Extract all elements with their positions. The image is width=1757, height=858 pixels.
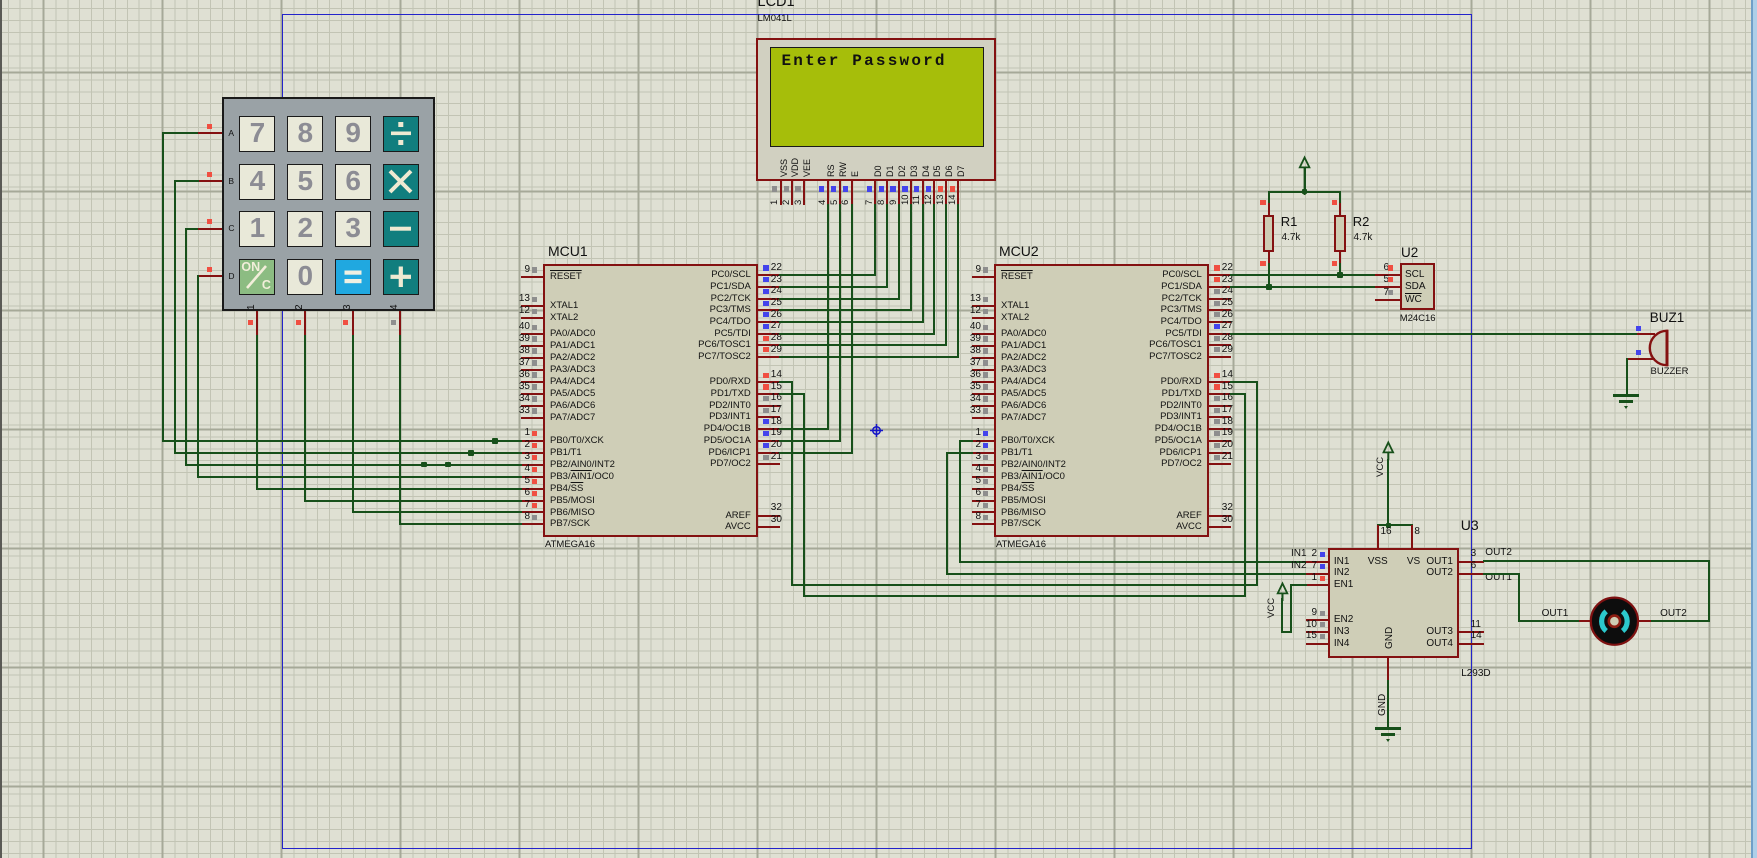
MCU2 pin 33 PA7/ADC7 <box>972 417 994 419</box>
wire U3 OUT1 to motor (net OUT2) <box>1483 560 1710 562</box>
MCU1 pin 2 PB1/T1 <box>521 452 543 454</box>
U2 pin 6 <box>1375 274 1400 276</box>
U3 left pin 10 <box>1306 631 1328 633</box>
keypad button 7 <box>239 116 275 152</box>
LCD pin 8 D1 <box>886 165 896 177</box>
MCU1 pin 3 PB2/AIN0/INT2 <box>521 464 543 466</box>
wire MCU1 to LCD <box>779 309 912 311</box>
net label OUT1 (pin6) <box>1485 572 1525 585</box>
motor symbol <box>1588 595 1641 648</box>
LCD LM041L body <box>756 38 996 181</box>
left screen edge <box>0 0 2 858</box>
keypad button 0 <box>287 259 323 295</box>
keypad button 1 <box>239 211 275 247</box>
wire MCU1 to LCD <box>779 356 959 358</box>
MCU1 pin 26 PC4/TDO <box>758 321 780 323</box>
MCU2 pin 16 PD2/INT0 <box>1209 405 1231 407</box>
LCD pin 5 RW <box>839 162 849 177</box>
wire MCU1 to LCD <box>779 440 841 442</box>
MCU2 pin 3 PB2/AIN0/INT2 <box>972 464 994 466</box>
wire MCU2 PB0 to U3 IN1 <box>959 440 973 442</box>
MCU1 pin 12 XTAL2 <box>521 317 543 319</box>
node junction R2-SCL <box>1337 272 1343 278</box>
wire MCU1 to LCD <box>779 286 888 288</box>
MCU1 pin 30 AVCC <box>758 526 780 528</box>
MCU1 pin 37 PA3/ADC3 <box>521 369 543 371</box>
MCU2 pin 5 PB4/SS <box>972 488 994 490</box>
keypad column pin 2 <box>304 311 306 336</box>
net label OUT2 (pin3) <box>1485 547 1525 560</box>
MCU2 pin 9 RESET <box>972 276 994 278</box>
wire keypad column 1 to MCU1 PB4 <box>256 335 258 490</box>
MCU1 pin 8 PB7/SCK <box>521 523 543 525</box>
MCU1 pin 24 PC2/TCK <box>758 298 780 300</box>
wire keypad row A to MCU1 PB0 <box>162 132 199 134</box>
wire MCU1 to LCD <box>779 321 924 323</box>
U3 left pin 7 <box>1306 573 1328 575</box>
U3 left pin 9 <box>1306 619 1328 621</box>
keypad button − <box>383 211 419 247</box>
keypad button 8 <box>287 116 323 152</box>
GND net label <box>1377 694 1388 716</box>
MCU2 pin 30 AVCC <box>1209 526 1231 528</box>
origin marker <box>870 424 884 438</box>
buzzer BUZ1 symbol <box>1648 329 1670 367</box>
ground (buzzer) <box>1611 393 1643 411</box>
wire keypad row C to MCU1 PB2 <box>185 228 198 230</box>
MCU2 pin 23 PC1/SDA <box>1209 286 1231 288</box>
LCD pin 10 D3 <box>910 165 920 177</box>
keypad button = <box>335 259 371 295</box>
net label OUT1 (motor) <box>1542 608 1582 621</box>
U3 right pin 6 <box>1459 573 1483 575</box>
LCD pin 2 VDD <box>791 158 801 177</box>
keypad button ON/C <box>239 259 275 295</box>
MCU2 pin 32 AREF <box>1209 515 1231 517</box>
MCU1 pin 14 PD0/RXD <box>758 381 780 383</box>
wire junction dots <box>492 438 498 444</box>
MCU2 pin 35 PA5/ADC5 <box>972 393 994 395</box>
MCU1 pin 39 PA1/ADC1 <box>521 345 543 347</box>
MCU2 pin 22 PC0/SCL <box>1209 274 1231 276</box>
MCU1 pin 32 AREF <box>758 515 780 517</box>
MCU1 pin 38 PA2/ADC2 <box>521 357 543 359</box>
MCU1 pin 17 PD3/INT1 <box>758 416 780 418</box>
MCU1 pin 29 PC7/TOSC2 <box>758 356 780 358</box>
driver U3 label <box>1461 517 1501 535</box>
U3 left pin 15 <box>1306 643 1328 645</box>
keypad button 4 <box>239 164 275 200</box>
LCD pin 9 D2 <box>898 165 908 177</box>
MCU1 pin 9 RESET <box>521 276 543 278</box>
keypad row pin A <box>198 132 223 134</box>
EEPROM U2 body <box>1400 263 1436 310</box>
ground (U3) <box>1372 726 1405 744</box>
wire U3 OUT2 to motor (net OUT1) <box>1483 573 1520 575</box>
MCU1 pin 23 PC1/SDA <box>758 286 780 288</box>
LCD pin 13 D6 <box>945 165 955 177</box>
keypad button 2 <box>287 211 323 247</box>
wire keypad row B to MCU1 PB1 <box>174 180 199 182</box>
MCU2 pin 39 PA1/ADC1 <box>972 345 994 347</box>
wire MCU2 PC0 SCL to U2 <box>1230 274 1376 276</box>
keypad button 3 <box>335 211 371 247</box>
MCU1 pin 6 PB5/MOSI <box>521 500 543 502</box>
buzzer pin 2 <box>1627 358 1655 360</box>
LCD pin 12 D5 <box>933 165 943 177</box>
MCU1 pin 13 XTAL1 <box>521 305 543 307</box>
LCD pin 14 D7 <box>957 165 967 177</box>
MCU1 pin 28 PC6/TOSC1 <box>758 344 780 346</box>
MCU2 pin 40 PA0/ADC0 <box>972 333 994 335</box>
MCU2 pin 13 XTAL1 <box>972 305 994 307</box>
wire buzzer to ground <box>1626 358 1628 396</box>
MCU2 pin 34 PA6/ADC6 <box>972 405 994 407</box>
keypad button 9 <box>335 116 371 152</box>
MCU1 pin 22 PC0/SCL <box>758 274 780 276</box>
MCU2 pin 12 XTAL2 <box>972 317 994 319</box>
wire MCU1 to LCD <box>779 452 853 454</box>
MCU1 pin 18 PD4/OC1B <box>758 428 780 430</box>
MCU1 pin 7 PB6/MISO <box>521 511 543 513</box>
keypad KEYPAD1 body <box>222 97 435 312</box>
LCD screen <box>770 47 984 147</box>
keypad column pin 3 <box>352 311 354 336</box>
wire MCU2 PC5 to buzzer <box>1230 333 1638 335</box>
MCU2 pin 29 PC7/TOSC2 <box>1209 356 1231 358</box>
MCU2 pin 14 PD0/RXD <box>1209 381 1231 383</box>
MCU MCU2 body ATMEGA16 <box>994 264 1209 538</box>
U3 pin 8 <box>1411 525 1413 548</box>
MCU2 pin 17 PD3/INT1 <box>1209 416 1231 418</box>
wire U3 GND to ground <box>1387 680 1389 729</box>
wire MCU1 PD1 to MCU2 PD1 <box>779 393 806 395</box>
LCD pin 1 VSS <box>780 159 790 177</box>
MCU2 pin 2 PB1/T1 <box>972 452 994 454</box>
MCU1 pin 19 PD5/OC1A <box>758 440 780 442</box>
power VCC arrow (pullups) <box>1294 155 1316 195</box>
MCU1 pin 27 PC5/TDI <box>758 333 780 335</box>
MCU2 pin 26 PC4/TDO <box>1209 321 1231 323</box>
MCU2 pin 28 PC6/TOSC1 <box>1209 344 1231 346</box>
U2 pin 7 <box>1375 299 1400 301</box>
U3 GND pin <box>1387 658 1389 681</box>
MCU1 pin 16 PD2/INT0 <box>758 405 780 407</box>
MCU1 pin 4 PB3/AIN1/OC0 <box>521 476 543 478</box>
MCU2 pin 38 PA2/ADC2 <box>972 357 994 359</box>
U3 GND inside label <box>1384 626 1395 648</box>
keypad row pin C <box>198 228 223 230</box>
buzzer pin 1 <box>1637 333 1655 335</box>
MCU2 pin 4 PB3/AIN1/OC0 <box>972 476 994 478</box>
wire MCU1 to LCD <box>779 344 947 346</box>
MCU2 pin 7 PB6/MISO <box>972 511 994 513</box>
wire MCU2 PC1 SDA to U2 <box>1230 286 1376 288</box>
buzzer BUZ1 label <box>1650 310 1710 327</box>
MCU2 pin 19 PD5/OC1A <box>1209 440 1231 442</box>
MCU2 pin 6 PB5/MOSI <box>972 500 994 502</box>
U3 right pin 3 <box>1459 561 1483 563</box>
MCU1 pin 25 PC3/TMS <box>758 309 780 311</box>
keypad button 5 <box>287 164 323 200</box>
resistor R2 labels <box>1353 214 1393 230</box>
resistor R2 <box>1339 191 1341 204</box>
MCU MCU2 label <box>999 243 1069 261</box>
MCU2 pin 25 PC3/TMS <box>1209 309 1231 311</box>
wire VCC to pullup resistors <box>1268 191 1341 193</box>
wire keypad column 3 to MCU1 PB6 <box>352 335 354 514</box>
resistor R1 <box>1268 191 1270 204</box>
schematic border frame <box>282 14 1472 849</box>
MCU2 pin 36 PA4/ADC4 <box>972 381 994 383</box>
MCU1 pin 20 PD6/ICP1 <box>758 452 780 454</box>
LCD pin 6 E <box>851 171 861 177</box>
MCU1 pin 35 PA5/ADC5 <box>521 393 543 395</box>
wire keypad row D to MCU1 PB3 <box>197 275 199 277</box>
MCU1 pin 33 PA7/ADC7 <box>521 417 543 419</box>
driver U3 body L293D <box>1328 548 1459 657</box>
U3 pin 16 <box>1377 525 1379 548</box>
keypad row pin B <box>198 180 223 182</box>
wire VCC to U3 pins 16,8 <box>1387 459 1389 526</box>
LCD LCD1 label <box>758 0 818 12</box>
MCU2 pin 15 PD1/TXD <box>1209 393 1231 395</box>
power VCC arrow (EN1) <box>1272 581 1294 601</box>
LCD text Enter Password <box>782 52 992 70</box>
MCU2 pin 18 PD4/OC1B <box>1209 428 1231 430</box>
wire MCU1 PD0 to MCU2 PD0 <box>779 381 794 383</box>
MCU2 pin 21 PD7/OC2 <box>1209 463 1231 465</box>
MCU1 pin 21 PD7/OC2 <box>758 463 780 465</box>
power VCC arrow (U3 VS) <box>1378 440 1400 460</box>
keypad button 6 <box>335 164 371 200</box>
right scrollbar strip <box>1751 0 1757 858</box>
wire MCU1 to LCD <box>779 333 936 335</box>
MCU2 pin 1 PB0/T0/XCK <box>972 440 994 442</box>
EEPROM U2 label <box>1401 245 1441 262</box>
MCU1 pin 36 PA4/ADC4 <box>521 381 543 383</box>
MCU1 pin 5 PB4/SS <box>521 488 543 490</box>
node junction R1-SDA <box>1266 284 1272 290</box>
LCD pin 4 RS <box>827 164 837 177</box>
keypad button × <box>383 164 419 200</box>
U3 left pin 2 <box>1306 561 1328 563</box>
MCU2 pin 37 PA3/ADC3 <box>972 369 994 371</box>
U2 pin 5 <box>1375 286 1400 288</box>
MCU1 pin 34 PA6/ADC6 <box>521 405 543 407</box>
MCU1 pin 40 PA0/ADC0 <box>521 333 543 335</box>
MCU2 pin 8 PB7/SCK <box>972 523 994 525</box>
MCU2 pin 20 PD6/ICP1 <box>1209 452 1231 454</box>
motor pin stubs <box>1579 620 1591 622</box>
wire VCC to EN1 <box>1281 598 1283 633</box>
LCD pin 7 D0 <box>874 165 884 177</box>
LCD pin 11 D4 <box>922 165 932 177</box>
MCU1 pin 15 PD1/TXD <box>758 393 780 395</box>
wire MCU2 PB1 to U3 IN2 <box>946 452 973 454</box>
MCU1 pin 1 PB0/T0/XCK <box>521 440 543 442</box>
MCU2 pin 24 PC2/TCK <box>1209 298 1231 300</box>
keypad column pin 1 <box>256 311 258 336</box>
keypad row pin D <box>198 275 223 277</box>
LCD pin 3 VEE <box>803 159 813 177</box>
keypad button ÷ <box>383 116 419 152</box>
U3 right pin 11 <box>1459 631 1483 633</box>
MCU MCU1 label <box>548 243 618 261</box>
keypad column pin 4 <box>399 311 401 336</box>
MCU MCU1 body ATMEGA16 <box>543 264 758 538</box>
keypad button + <box>383 259 419 295</box>
wire keypad column 4 to MCU1 PB7 <box>399 335 401 526</box>
wire keypad column 2 to MCU1 PB5 <box>304 335 306 502</box>
wire MCU1 to LCD <box>779 298 900 300</box>
net label OUT2 (motor) <box>1660 608 1700 621</box>
wire MCU1 to LCD <box>779 428 829 430</box>
wire MCU1 to LCD <box>779 274 877 276</box>
U3 left pin 1 <box>1306 584 1328 586</box>
U3 right pin 14 <box>1459 643 1483 645</box>
MCU2 pin 27 PC5/TDI <box>1209 333 1231 335</box>
resistor R1 labels <box>1281 214 1321 230</box>
